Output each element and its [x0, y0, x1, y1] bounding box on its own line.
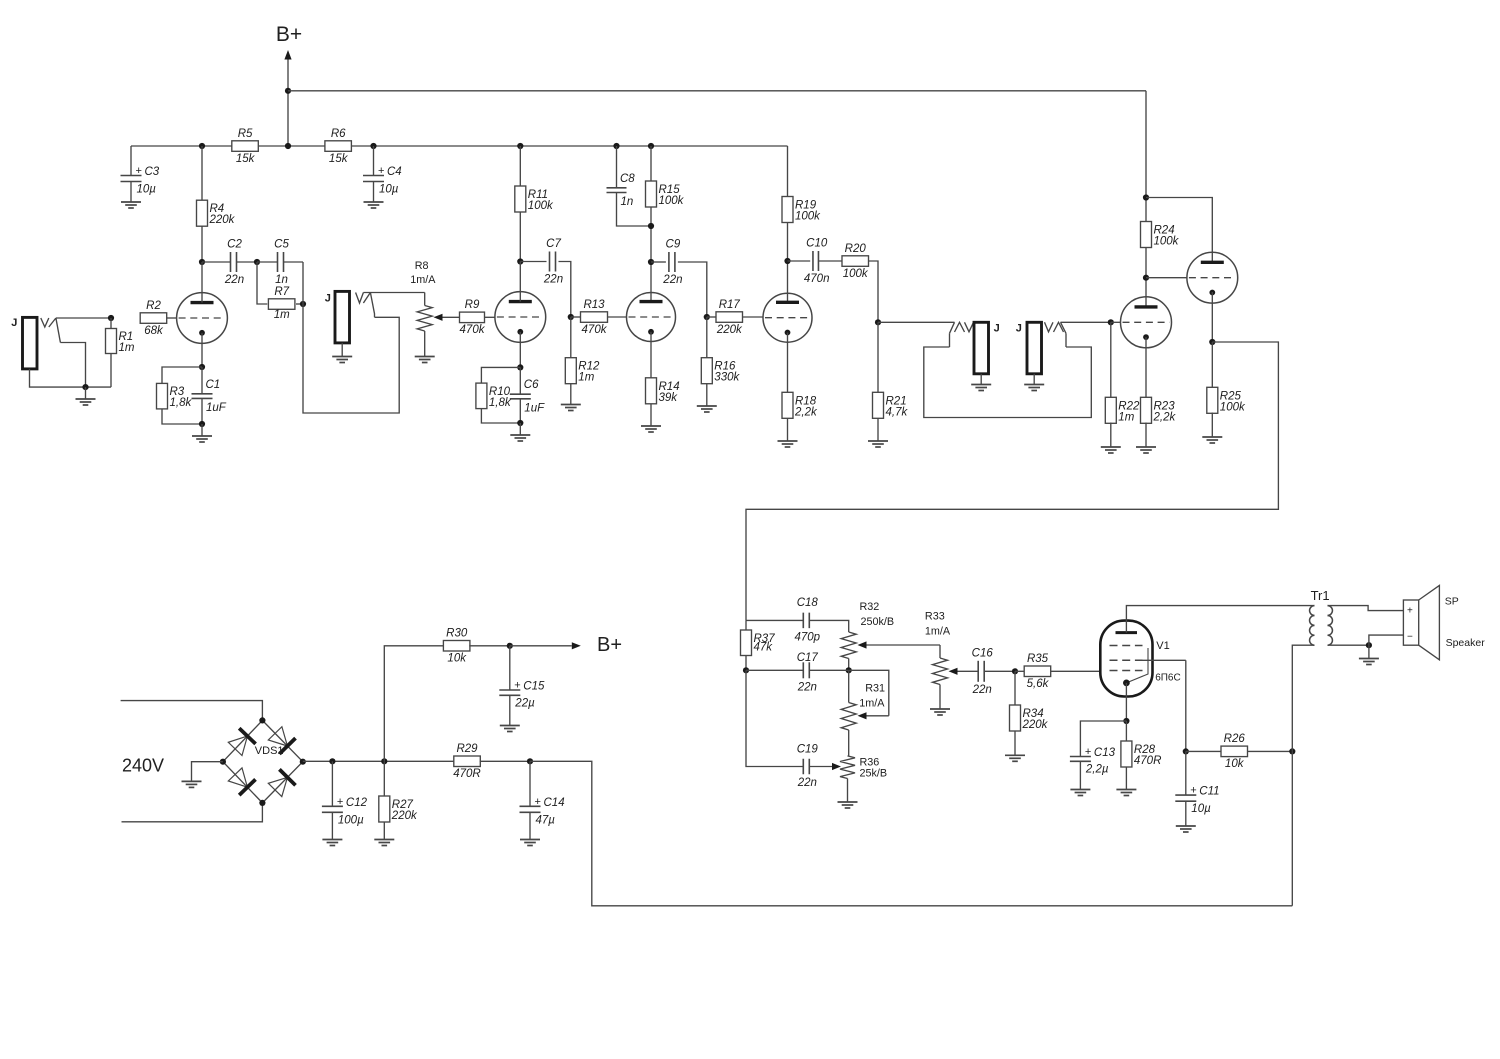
wire to jack J3: [878, 321, 955, 323]
wire R34 to ground: [1014, 731, 1016, 755]
wire down to R7: [257, 262, 267, 304]
ground AC side: [182, 781, 202, 787]
ground jack J4: [1024, 385, 1044, 391]
ground R36: [838, 802, 858, 808]
diode VDS1 bottom-right: [268, 769, 295, 796]
resistor R5: [232, 128, 258, 165]
svg-text:R17: R17: [719, 299, 741, 311]
resistor R26: [1221, 733, 1248, 770]
svg-text:J: J: [1016, 323, 1022, 335]
capacitor C14: [520, 796, 565, 827]
capacitor C2: [224, 239, 244, 287]
wire R8 bottom lead: [424, 331, 426, 357]
ground C14: [520, 840, 540, 846]
wire B+ riser down: [1291, 751, 1293, 905]
jack J2 label: [325, 293, 331, 305]
wire R31 wiper arrow: [858, 712, 889, 719]
wire R21 branch: [877, 322, 879, 392]
svg-text:220k: 220k: [1022, 719, 1049, 731]
svg-text:B+: B+: [597, 634, 622, 656]
wire jack J3 sleeve to ground: [980, 374, 982, 385]
junction grid V stage5 / R22: [1108, 319, 1114, 325]
wire rail to C3: [130, 146, 132, 176]
wire rail to C4: [373, 146, 375, 176]
svg-text:+: +: [1085, 746, 1091, 758]
wire plate to C2: [202, 261, 231, 263]
label 240V: [122, 756, 164, 776]
resistor R25: [1207, 387, 1246, 413]
wire jack J1 arm to ground bus: [60, 343, 85, 388]
wire C16 to R35 node: [984, 670, 1015, 672]
jack J3 tip contact: [955, 322, 974, 332]
svg-text:Speaker: Speaker: [1446, 637, 1486, 649]
svg-text:15k: 15k: [236, 153, 256, 165]
wire cathode to C6: [519, 367, 521, 394]
wire R32 bottom: [848, 659, 850, 671]
wire to C18: [746, 619, 803, 621]
svg-text:100k: 100k: [843, 268, 869, 280]
capacitor C9: [662, 239, 682, 287]
label Tr1: [1311, 588, 1330, 603]
label SP: [1445, 596, 1459, 608]
pentode V1 cathode: [1123, 680, 1130, 687]
wire cathode lead stage4: [787, 333, 789, 393]
junction C1/R3 ground node: [199, 421, 205, 427]
svg-text:R31: R31: [865, 683, 885, 695]
svg-text:22n: 22n: [543, 274, 563, 286]
svg-text:C7: C7: [546, 238, 561, 250]
wire plate to C10: [788, 260, 811, 262]
svg-text:1,8k: 1,8k: [170, 397, 193, 409]
svg-text:R35: R35: [1027, 653, 1049, 665]
node plate stage2: [517, 258, 523, 264]
resistor R37: [741, 630, 776, 656]
wire C15 branch: [509, 646, 511, 690]
wire R2 to grid V1a: [167, 317, 177, 319]
capacitor C7: [543, 238, 563, 286]
wire R8 wiper from R9: [434, 314, 460, 321]
diode VDS1 left-top: [228, 728, 255, 755]
net B+ label (top): [276, 23, 302, 46]
svg-text:C15: C15: [523, 681, 545, 693]
svg-text:C14: C14: [544, 797, 565, 809]
jack J2 tip contact: [356, 293, 371, 304]
wire R3 bottom: [162, 409, 202, 424]
wire R25 to ground: [1211, 413, 1213, 438]
wire R35 to V1 grid: [1051, 670, 1101, 672]
triode V stage5: [1121, 297, 1172, 348]
svg-text:10µ: 10µ: [137, 184, 157, 196]
wire node down to C19: [746, 670, 803, 766]
svg-text:330k: 330k: [714, 372, 740, 384]
wire R22 branch: [1110, 322, 1112, 398]
node plate V stage1: [199, 259, 205, 265]
wire AC line bottom: [122, 803, 263, 822]
svg-text:10µ: 10µ: [379, 184, 399, 196]
svg-text:R6: R6: [331, 128, 346, 140]
resistor R20: [842, 243, 869, 280]
wire junction to R31 wiper: [849, 670, 889, 716]
wire R20 to R21 node: [869, 261, 879, 322]
capacitor C17: [797, 652, 819, 694]
wire C3 to ground: [130, 182, 132, 203]
jack J4 tip contact: [1045, 322, 1064, 332]
wire R18 to ground: [787, 418, 789, 441]
junction C7/R13/R12: [568, 314, 574, 320]
resistor R29: [453, 743, 481, 780]
junction R15/C8: [648, 223, 654, 229]
resistor R21: [873, 392, 909, 418]
svg-text:2,2k: 2,2k: [794, 406, 818, 418]
svg-text:47µ: 47µ: [536, 814, 556, 826]
svg-text:C11: C11: [1199, 786, 1219, 798]
svg-text:C12: C12: [346, 797, 368, 809]
wire jack J2 sleeve to ground: [341, 343, 343, 357]
resistor R16: [701, 358, 740, 384]
potentiometer R33: [933, 658, 948, 685]
junction rail / R15: [648, 143, 654, 149]
svg-text:VDS1: VDS1: [255, 745, 284, 757]
wire plate lead stage2: [519, 262, 521, 302]
svg-text:1m/A: 1m/A: [925, 625, 951, 637]
junction C14: [527, 758, 533, 764]
wire R9 to grid stage2: [485, 316, 496, 318]
speaker SP body: [1403, 600, 1418, 645]
wire node to R26: [1186, 750, 1222, 752]
ground R14: [641, 426, 661, 432]
wire to ground: [85, 387, 87, 399]
wire R31 to R36: [848, 730, 850, 756]
svg-text:C9: C9: [666, 239, 681, 251]
junction C9/R17/R16: [704, 314, 710, 320]
ground speaker return: [1359, 659, 1379, 665]
ground R34: [1005, 755, 1025, 761]
junction R20/R21/grid wire: [875, 319, 881, 325]
junction rail / B+ riser: [285, 143, 291, 149]
wire B+ down to R24 node: [1145, 91, 1147, 198]
svg-text:R33: R33: [925, 610, 945, 622]
svg-text:4,7k: 4,7k: [886, 406, 909, 418]
resistor R28: [1121, 741, 1162, 767]
wire Tr1 primary bottom to B+ riser: [1292, 645, 1314, 751]
wire R7 right: [296, 303, 303, 305]
wire cathode stage6: [1211, 292, 1213, 342]
wire cathode lead stage1: [201, 333, 203, 367]
wire R22 to ground: [1110, 423, 1112, 448]
wire R28 branch: [1125, 721, 1127, 742]
svg-text:R13: R13: [583, 299, 605, 311]
wire R27 branch: [383, 761, 385, 796]
resistor R13: [581, 299, 608, 336]
wire R34 branch: [1014, 671, 1016, 705]
wire node to R17: [707, 316, 716, 318]
svg-text:470k: 470k: [460, 324, 486, 336]
wire node to C17: [746, 669, 803, 671]
wire R31 top lead: [848, 670, 850, 702]
wire C13 to ground: [1079, 761, 1081, 789]
wire R27 to ground: [383, 822, 385, 840]
wire C11 branch: [1185, 751, 1187, 795]
wire V1 cathode down: [1125, 683, 1127, 721]
wire node to R13: [571, 316, 581, 318]
wire C10 to R20: [819, 260, 843, 262]
svg-text:J: J: [994, 323, 1000, 335]
wire R26 to B+ node: [1247, 750, 1292, 752]
wire cathode lead stage3: [650, 332, 652, 378]
potentiometer R32: [841, 632, 856, 659]
svg-text:C19: C19: [797, 743, 819, 755]
wire R30 to C15 node: [469, 645, 510, 647]
ground C12: [322, 840, 342, 846]
svg-text:100k: 100k: [1220, 401, 1246, 413]
wire R14 to ground: [650, 404, 652, 426]
svg-text:1uF: 1uF: [524, 402, 545, 414]
wire send loop to jack2: [303, 262, 399, 413]
ground stage2 cathode: [510, 435, 530, 441]
jack J1 switch arm: [56, 318, 61, 343]
wire C18 to R32 top: [809, 620, 848, 632]
junction C16/R35/R34: [1012, 668, 1018, 674]
junction R32/C17/R31: [846, 667, 852, 673]
svg-text:R2: R2: [146, 300, 161, 312]
wire C5 right: [284, 261, 304, 263]
wire to ground: [201, 424, 203, 436]
svg-text:22n: 22n: [797, 682, 817, 694]
diode VDS1 top-right: [268, 727, 295, 754]
wire jack J1 sleeve to ground bus: [30, 369, 112, 387]
svg-text:SP: SP: [1445, 596, 1459, 608]
ground R8: [415, 357, 435, 363]
jack J4 label: [1016, 323, 1022, 335]
potentiometer R32 labels: [860, 601, 895, 628]
junction rail / C4: [370, 143, 376, 149]
jack J4 switch arm: [1061, 322, 1067, 347]
wire V1 plate to Tr1 primary: [1126, 606, 1314, 633]
svg-text:1m: 1m: [578, 372, 594, 384]
wire B+ to plate stage6: [1146, 198, 1212, 263]
svg-text:C4: C4: [387, 166, 402, 178]
wire rail to C8: [616, 146, 618, 188]
label VDS1: [255, 745, 284, 757]
pentode V1 beam plate tie: [1126, 648, 1148, 683]
svg-text:39k: 39k: [659, 392, 679, 404]
wire to SP-: [1369, 635, 1404, 645]
wire V1 screen out: [1143, 659, 1186, 661]
node plate stage3: [648, 259, 654, 265]
svg-text:1m/A: 1m/A: [410, 274, 436, 286]
wire jack J2 tip to R8: [363, 292, 424, 294]
junction C6/R10 ground node: [517, 420, 523, 426]
svg-text:1uF: 1uF: [206, 402, 227, 414]
capacitor C6: [510, 379, 545, 414]
resistor R2: [140, 300, 167, 337]
potentiometer R8: [417, 306, 432, 332]
wire bridge + to R29: [303, 760, 454, 762]
svg-text:C8: C8: [620, 173, 635, 185]
wire R37 branch: [745, 620, 747, 630]
ground R22: [1101, 447, 1121, 453]
wire secondary to ground: [1368, 645, 1370, 658]
svg-text:1m: 1m: [274, 309, 290, 321]
svg-text:100k: 100k: [795, 211, 821, 223]
junction R30/C15: [507, 643, 513, 649]
wire R29 to C14 node: [480, 760, 530, 762]
ground C13: [1070, 790, 1090, 796]
wire node to R35: [1015, 670, 1025, 672]
svg-text:B+: B+: [276, 23, 302, 46]
wire AC line top: [121, 701, 263, 721]
wire jack J4 sleeve to ground: [1033, 374, 1035, 385]
triode V stage2: [495, 292, 546, 343]
ground R33: [930, 709, 950, 715]
triode V stage4: [763, 293, 812, 342]
potentiometer R8 labels: [410, 260, 436, 286]
node plate stage4: [784, 258, 790, 264]
capacitor C5: [274, 239, 289, 287]
svg-text:470R: 470R: [453, 768, 481, 780]
wire R23 to ground: [1145, 423, 1147, 448]
junction bridge top: [259, 717, 265, 723]
svg-text:+: +: [514, 680, 520, 692]
wire R33 wiper from C16: [949, 668, 979, 675]
capacitor C8: [607, 173, 636, 208]
wire R4 branch: [201, 146, 203, 262]
junction B+ / R24 / tube6 plate: [1143, 194, 1149, 200]
wire to C13: [1080, 721, 1126, 757]
wire B+ to right section: [288, 90, 1146, 92]
wire B+ arrow (psu): [510, 642, 581, 649]
svg-text:25k/B: 25k/B: [860, 768, 888, 780]
wire R17 to grid stage4: [743, 316, 764, 318]
svg-text:10k: 10k: [447, 653, 467, 665]
junction C2/C5/R7: [254, 259, 260, 265]
wire C19 to R36 wiper: [809, 763, 841, 770]
wire to R10: [481, 367, 520, 383]
wire C12 branch: [331, 761, 333, 806]
wire C9 to R17 node: [678, 262, 707, 317]
ground below C4: [364, 202, 384, 208]
wire plate lead stage1: [201, 262, 203, 303]
resistor R3: [157, 383, 193, 409]
resistor R11: [515, 186, 554, 212]
svg-text:R9: R9: [465, 299, 480, 311]
wire main B+ rail: [131, 145, 788, 147]
potentiometer R36 labels: [860, 756, 888, 779]
pentode V1 grids (dashed): [1110, 646, 1143, 671]
svg-text:J: J: [325, 293, 331, 305]
svg-text:R26: R26: [1224, 733, 1246, 745]
resistor R9: [460, 299, 486, 336]
resistor R23: [1141, 397, 1177, 423]
svg-text:J: J: [11, 317, 17, 329]
triode V stage3: [627, 293, 676, 342]
svg-text:V1: V1: [1156, 640, 1169, 652]
svg-text:C5: C5: [274, 239, 289, 251]
wire R10 bottom: [481, 409, 520, 423]
transformer Tr1 secondary winding: [1328, 606, 1333, 646]
svg-text:+: +: [136, 165, 142, 177]
svg-text:22n: 22n: [662, 274, 682, 286]
wire to grid stage6: [1146, 277, 1187, 279]
svg-text:470R: 470R: [1134, 755, 1162, 767]
ground R25: [1202, 437, 1222, 443]
ground C15: [500, 726, 520, 732]
wire to R3: [162, 367, 202, 384]
resistor R35: [1024, 653, 1051, 690]
junction secondary/ground: [1366, 642, 1372, 648]
wire R28 to ground: [1125, 767, 1127, 790]
svg-text:+: +: [535, 796, 541, 808]
svg-text:2,2µ: 2,2µ: [1085, 763, 1109, 775]
wire B+ feed to output stage: [530, 761, 1292, 906]
capacitor C12: [322, 796, 368, 827]
junction R26/B+ riser: [1289, 748, 1295, 754]
ground R27: [374, 840, 394, 846]
svg-text:R29: R29: [456, 743, 478, 755]
junction rail / C8: [613, 143, 619, 149]
wire R32 wiper to R33: [858, 641, 941, 648]
junction cathode V1: [1123, 718, 1129, 724]
wire screen to R26 node: [1185, 660, 1187, 751]
wire to ground: [519, 423, 521, 435]
svg-text:C1: C1: [206, 379, 221, 391]
wire C12 to ground: [331, 812, 333, 839]
svg-text:C2: C2: [227, 239, 242, 251]
svg-text:C3: C3: [145, 166, 160, 178]
wire C6 bottom: [519, 399, 521, 423]
wire grid stage5: [1111, 321, 1121, 323]
svg-text:5,6k: 5,6k: [1027, 678, 1050, 690]
ground R18: [778, 441, 798, 447]
resistor R34: [1010, 705, 1049, 731]
wire node to C5: [257, 261, 278, 263]
svg-text:100k: 100k: [659, 195, 685, 207]
svg-text:10µ: 10µ: [1191, 803, 1211, 815]
pentode V1 body: [1100, 621, 1152, 697]
svg-text:C18: C18: [797, 597, 819, 609]
svg-text:1n: 1n: [621, 196, 634, 208]
wire R36 to ground: [847, 779, 849, 803]
svg-text:+: +: [378, 165, 384, 177]
svg-text:C6: C6: [524, 379, 539, 391]
wire C14 branch: [529, 761, 531, 806]
svg-text:15k: 15k: [329, 153, 349, 165]
svg-text:22n: 22n: [797, 777, 817, 789]
ground R21: [868, 441, 888, 447]
wire jack J4 to grid node: [1061, 321, 1111, 323]
resistor R6: [325, 128, 352, 165]
resistor R15: [646, 181, 685, 207]
capacitor C10: [804, 238, 830, 286]
wire secondary bottom: [1328, 644, 1369, 646]
net B+ label (psu): [597, 634, 622, 656]
ground R23: [1136, 447, 1156, 453]
label 6П6С: [1155, 673, 1181, 684]
triode V stage6: [1187, 252, 1238, 303]
B+ arrow (up): [284, 50, 291, 146]
svg-text:100µ: 100µ: [338, 814, 364, 826]
svg-text:22µ: 22µ: [514, 697, 535, 709]
svg-text:R7: R7: [274, 286, 289, 298]
resistor R10: [476, 383, 512, 409]
triode V stage1: [177, 293, 228, 344]
wire R33 to ground: [939, 685, 941, 710]
svg-text:470n: 470n: [804, 273, 830, 285]
resistor R19: [782, 197, 821, 223]
ground R16: [697, 406, 717, 412]
svg-text:R8: R8: [415, 260, 429, 272]
svg-text:10k: 10k: [1225, 758, 1245, 770]
